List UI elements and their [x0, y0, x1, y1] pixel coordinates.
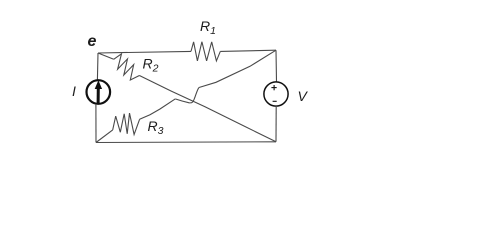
svg-text:I: I [72, 83, 76, 99]
wire left segment: node e down to current source [96, 53, 99, 80]
wire diagonal lead: bottom-left corner to R3 [96, 130, 113, 143]
resistor R2 [114, 54, 140, 80]
wire diagonal: R2 to bottom-right corner (passes under crossover) [139, 76, 276, 142]
current source I [87, 80, 111, 104]
svg-text:R3: R3 [148, 118, 164, 137]
wire crossover hop: R3 branch jumps over R2 branch [175, 88, 199, 103]
svg-text:R1: R1 [200, 18, 216, 37]
wire top segment: R1 right lead to top-right corner [220, 50, 276, 51]
wire right segment: voltage source to bottom-right corner [275, 106, 277, 142]
resistor R3 [113, 113, 140, 134]
wire diagonal: crossover to top-right corner [199, 50, 276, 87]
wire right segment: top-right corner down to voltage source [275, 50, 278, 82]
resistor R1 [191, 42, 220, 61]
svg-text:R2: R2 [143, 56, 159, 75]
wire diagonal lead: node e to R2 [98, 53, 114, 59]
wire bottom: bottom-left corner to bottom-right corner [96, 141, 276, 144]
voltage source V [264, 82, 288, 106]
svg-text:e: e [88, 33, 97, 50]
wire diagonal: R3 up toward crossover [140, 99, 176, 119]
wire left segment: current source to bottom-left corner [95, 104, 97, 143]
wire top segment: node e to R1 left lead [98, 51, 191, 53]
svg-text:V: V [298, 88, 309, 104]
